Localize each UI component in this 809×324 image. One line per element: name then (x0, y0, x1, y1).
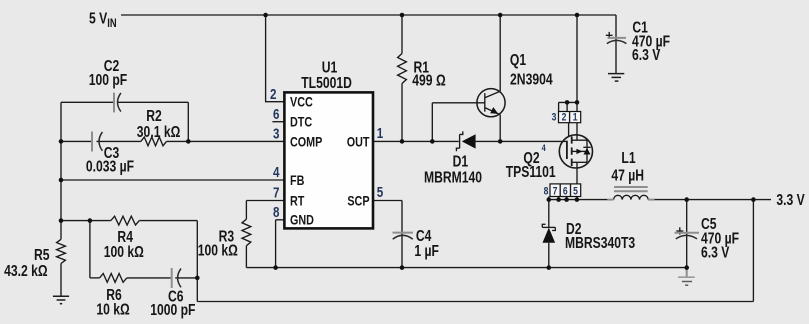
svg-text:OUT: OUT (347, 134, 370, 149)
svg-text:100 kΩ: 100 kΩ (104, 243, 144, 261)
svg-text:499 Ω: 499 Ω (412, 71, 445, 89)
svg-text:6: 6 (563, 185, 568, 197)
svg-text:4: 4 (542, 142, 546, 153)
svg-text:2N3904: 2N3904 (510, 70, 553, 88)
svg-text:L1: L1 (621, 149, 635, 167)
svg-text:TL5001D: TL5001D (301, 74, 352, 92)
svg-text:5: 5 (573, 185, 578, 197)
svg-text:3: 3 (552, 112, 557, 124)
svg-text:8: 8 (273, 204, 279, 221)
svg-text:1: 1 (377, 125, 383, 142)
svg-text:2: 2 (562, 112, 567, 124)
svg-text:MBRS340T3: MBRS340T3 (565, 234, 635, 252)
svg-text:30.1 kΩ: 30.1 kΩ (137, 123, 181, 141)
svg-text:6: 6 (273, 106, 279, 123)
svg-text:10 kΩ: 10 kΩ (96, 300, 129, 318)
svg-text:43.2 kΩ: 43.2 kΩ (4, 262, 48, 280)
svg-text:COMP: COMP (290, 134, 322, 149)
svg-text:6.3 V: 6.3 V (701, 243, 730, 261)
svg-text:MBRM140: MBRM140 (424, 168, 482, 186)
svg-text:DTC: DTC (290, 115, 312, 130)
svg-text:3: 3 (273, 125, 279, 142)
svg-text:Q1: Q1 (510, 51, 526, 69)
svg-text:7: 7 (553, 185, 558, 197)
svg-text:1: 1 (573, 112, 578, 124)
svg-text:8: 8 (544, 185, 549, 197)
svg-text:GND: GND (290, 213, 314, 228)
svg-text:1000 pF: 1000 pF (150, 301, 196, 319)
svg-text:47 µH: 47 µH (611, 166, 644, 184)
svg-text:4: 4 (273, 164, 280, 181)
svg-text:2: 2 (270, 86, 276, 103)
svg-text:VCC: VCC (290, 95, 313, 110)
svg-text:RT: RT (290, 193, 305, 208)
svg-text:5: 5 (377, 184, 383, 201)
svg-text:100 kΩ: 100 kΩ (198, 241, 238, 259)
svg-text:3.3 V: 3.3 V (776, 191, 805, 209)
svg-text:7: 7 (273, 184, 279, 201)
svg-text:100 pF: 100 pF (89, 71, 128, 89)
svg-text:6.3 V: 6.3 V (632, 46, 661, 64)
svg-text:FB: FB (290, 173, 305, 188)
svg-text:0.033 µF: 0.033 µF (86, 157, 135, 175)
svg-text:1 µF: 1 µF (414, 242, 439, 260)
svg-text:TPS1101: TPS1101 (506, 162, 556, 180)
svg-text:SCP: SCP (347, 193, 369, 208)
